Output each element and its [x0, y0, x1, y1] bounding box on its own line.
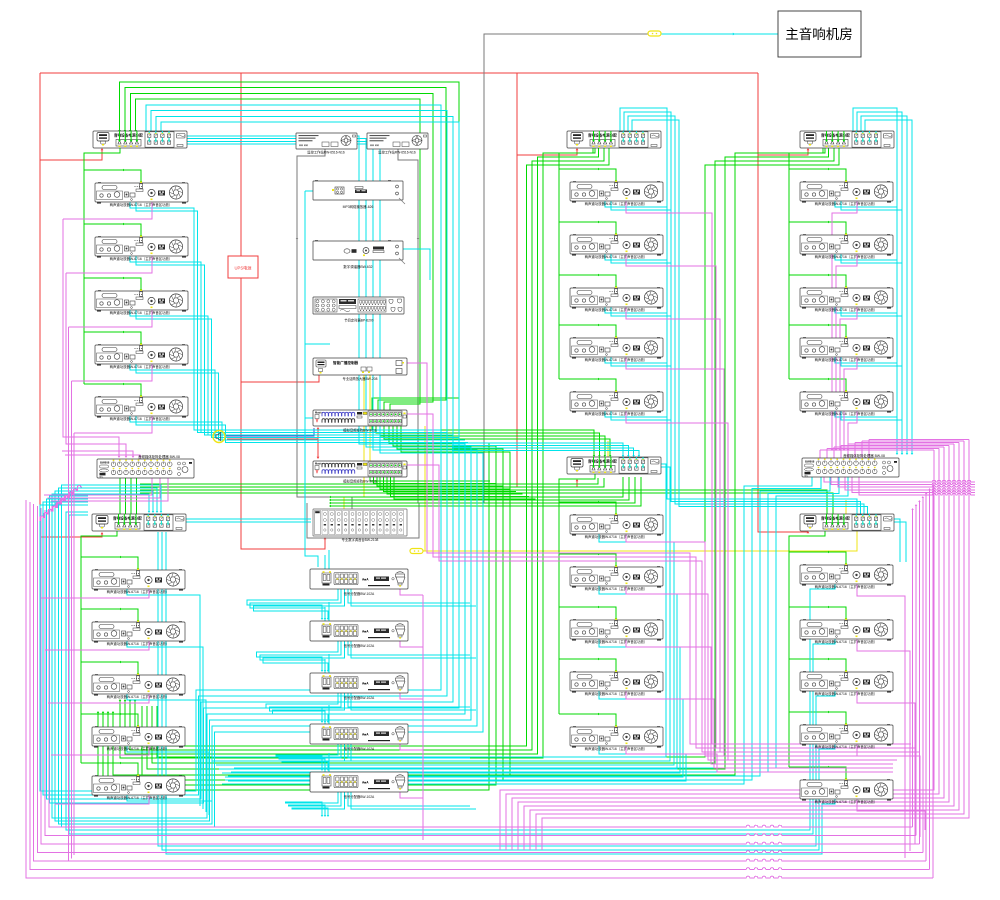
amplifier L1-A5 [95, 395, 188, 421]
svg-text:×× ××: ×× ×× [370, 144, 379, 148]
svg-text:两声道功放器W-6716（主扩声音区功放）: 两声道功放器W-6716（主扩声音区功放） [110, 416, 173, 421]
power distributor R2 [800, 514, 894, 531]
svg-text:×× ××: ×× ×× [299, 144, 308, 148]
amplifier M2-A2 [570, 565, 663, 591]
wire cyan M1 risers [620, 108, 869, 519]
svg-text:两声道功放器W-6716（主扩声音区功放）: 两声道功放器W-6716（主扩声音区功放） [107, 694, 170, 699]
svg-text:两声道功放器W-6716（主扩声音区功放）: 两声道功放器W-6716（主扩声音区功放） [815, 411, 878, 416]
svg-text:信号分配器BW-102A: 信号分配器BW-102A [344, 643, 375, 648]
svg-text:模拟音频矩阵BW-9016: 模拟音频矩阵BW-9016 [343, 428, 377, 433]
mic control box [313, 358, 407, 381]
svg-text:两声道功放器W-6716（主扩声音区功放）: 两声道功放器W-6716（主扩声音区功放） [585, 411, 648, 416]
svg-text:A■A: A■A [362, 733, 369, 737]
svg-text:信号分配器BW-102A: 信号分配器BW-102A [344, 746, 375, 751]
signal distributor C-4 [310, 724, 408, 751]
amplifier R2-A2 [800, 618, 893, 644]
wire magenta R1 outs [831, 201, 857, 451]
wire green strip1 fan [97, 426, 612, 790]
amplifier M2-A3 [570, 618, 663, 644]
wire cyan M2 amp loops [212, 443, 686, 781]
amplifier M1-A2 [570, 233, 663, 259]
svg-text:两声道功放器W-6716（主扩声音区功放）: 两声道功放器W-6716（主扩声音区功放） [585, 691, 648, 696]
wire magenta bottom ring [26, 484, 934, 878]
node UPS 24V power box [228, 256, 258, 278]
wire cyan M1 amp stubs [605, 201, 671, 420]
wire green R1 risers [142, 148, 839, 775]
svg-text:音响设备电源分配: 音响设备电源分配 [588, 458, 617, 463]
wire gray speaker trunk [296, 34, 648, 538]
svg-text:两声道功放器W-6716（主扩声音区功放）: 两声道功放器W-6716（主扩声音区功放） [815, 307, 878, 312]
signal distributor C-5 [310, 772, 408, 799]
svg-text:UPS电源: UPS电源 [235, 265, 253, 272]
wire cyan L2 pd out [186, 519, 311, 522]
svg-text:两声道功放器W-6716（主扩声音区功放）: 两声道功放器W-6716（主扩声音区功放） [107, 795, 170, 800]
wire magenta M1 outs [626, 201, 897, 760]
svg-text:两声道功放器W-6716（主扩声音区功放）: 两声道功放器W-6716（主扩声音区功放） [110, 202, 173, 207]
svg-text:两声道功放器W-6716（主扩声音区功放）: 两声道功放器W-6716（主扩声音区功放） [815, 201, 878, 206]
amplifier L2-A3 [92, 673, 185, 699]
amplifier M1-A3 [570, 286, 663, 312]
wire cyan bottom bus [66, 512, 835, 854]
amplifier R2-A4 [800, 723, 893, 749]
remote workstation B [367, 133, 428, 155]
wire green chain M2 [559, 474, 617, 727]
wire magenta M2 outs [626, 534, 893, 772]
amplifier R1-A1 [800, 180, 893, 206]
svg-text:信号分配器BW-102A: 信号分配器BW-102A [344, 591, 375, 596]
wire magenta hops left [40, 485, 82, 521]
svg-text:数字调谐器BW-632: 数字调谐器BW-632 [343, 264, 372, 269]
amplifier R1-A3 [800, 286, 893, 312]
svg-text:两声道功放器W-6716（主扩声音区功放）: 两声道功放器W-6716（主扩声音区功放） [585, 746, 648, 751]
svg-text:两声道功放器W-6716（主扩声音区功放）: 两声道功放器W-6716（主扩声音区功放） [815, 357, 878, 362]
amplifier R2-A1 [800, 563, 893, 589]
svg-text:遥控工作站RW-6516-N16: 遥控工作站RW-6516-N16 [378, 150, 416, 155]
amplifier R1-A2 [800, 233, 893, 259]
wire green chain L1 [84, 148, 142, 397]
wire cyan center boxes [247, 550, 476, 817]
svg-text:BW808: BW808 [100, 461, 110, 465]
amplifier M1-A4 [570, 336, 663, 362]
svg-text:两声道功放器W-6716（主扩声音区功放）: 两声道功放器W-6716（主扩声音区功放） [585, 254, 648, 259]
amplifier L2-A4 [92, 725, 185, 751]
svg-text:两声道功放器W-6716（主扩声音区功放）: 两声道功放器W-6716（主扩声音区功放） [107, 746, 170, 751]
svg-text:音响设备电源分配: 音响设备电源分配 [114, 132, 143, 137]
power distributor R1 [800, 131, 894, 148]
svg-text:两声道功放器W-6716（主扩声音区功放）: 两声道功放器W-6716（主扩声音区功放） [815, 254, 878, 259]
amplifier L2-A1 [92, 568, 185, 594]
mixer R2 八路处理器 [802, 453, 899, 478]
amplifier R2-A5 [800, 778, 893, 804]
svg-text:A■A: A■A [362, 682, 369, 686]
svg-text:两声道功放器W-6716（主扩声音区功放）: 两声道功放器W-6716（主扩声音区功放） [585, 307, 648, 312]
amplifier L1-A3 [95, 289, 188, 315]
svg-text:两声道功放器W-6716（主扩声音区功放）: 两声道功放器W-6716（主扩声音区功放） [107, 641, 170, 646]
wire magenta L2 outs [41, 478, 168, 804]
svg-text:MIC: MIC [805, 476, 809, 478]
wire magenta R2 mixer bottom fan [824, 477, 975, 495]
amplifier L2-A2 [92, 620, 185, 646]
wire green L1 risers [118, 82, 459, 410]
svg-text:信号分配器BW-102A: 信号分配器BW-102A [344, 695, 375, 700]
wire red power bus [40, 73, 809, 549]
svg-text:音响设备电源分配: 音响设备电源分配 [113, 515, 142, 520]
digital console [313, 509, 407, 542]
svg-text:两声道功放器W-6716（主扩声音区功放）: 两声道功放器W-6716（主扩声音区功放） [107, 589, 170, 594]
wire cyan center rack feeds [305, 190, 430, 567]
svg-text:专业数字调音台BW-2108: 专业数字调音台BW-2108 [342, 537, 379, 542]
amplifier M2-A1 [570, 513, 663, 539]
power distributor L1 [93, 131, 187, 148]
svg-text:信号分配器BW-102A: 信号分配器BW-102A [344, 794, 375, 799]
wire title cyan [661, 33, 778, 36]
wire blue/red speaker pair [225, 427, 319, 459]
wire cyan R1 loops [835, 108, 913, 455]
svg-text:智能广播控制器: 智能广播控制器 [332, 360, 359, 365]
svg-text:音频媒体矩阵处理器 BW-08: 音频媒体矩阵处理器 BW-08 [843, 453, 885, 458]
wire green M2 to center [329, 477, 641, 507]
amplifier R2-A3 [800, 670, 893, 696]
svg-text:两声道功放器W-6716（主扩声音区功放）: 两声道功放器W-6716（主扩声音区功放） [585, 639, 648, 644]
svg-text:A■A: A■A [362, 630, 369, 634]
power distributor M1 [567, 131, 661, 148]
wire green chain R2 [789, 531, 847, 780]
digital tuner box [313, 240, 405, 269]
wire magenta center box outs [400, 587, 423, 840]
signal distributor C-1 [310, 569, 408, 596]
svg-text:两声道功放器W-6716（主扩声音区功放）: 两声道功放器W-6716（主扩声音区功放） [585, 201, 648, 206]
svg-text:遥控工作站RW-6516-N16: 遥控工作站RW-6516-N16 [307, 150, 345, 155]
amplifier L1-A2 [95, 235, 188, 261]
wire green chain L2 [81, 531, 139, 776]
svg-text:两声道功放器W-6716（主扩声音区功放）: 两声道功放器W-6716（主扩声音区功放） [110, 364, 173, 369]
svg-text:主音响机房: 主音响机房 [785, 26, 853, 42]
wire green chain R1 [789, 148, 847, 392]
svg-text:MIC: MIC [100, 477, 104, 479]
yellow connector oval center [410, 549, 423, 554]
wire green chain M1 [559, 148, 617, 392]
svg-text:音频媒体矩阵处理器 BW-08: 音频媒体矩阵处理器 BW-08 [138, 454, 180, 459]
svg-text:两声道功放器W-6716（主扩声音区功放）: 两声道功放器W-6716（主扩声音区功放） [815, 799, 878, 804]
wire yellow controls [344, 375, 857, 551]
svg-text:音响设备电源分配: 音响设备电源分配 [588, 132, 617, 137]
node speaker symbol [213, 431, 225, 443]
wire cyan L1 amp loops [130, 202, 468, 443]
svg-text:音响设备电源分配: 音响设备电源分配 [821, 132, 850, 137]
wire cyan R2 mixer fan [222, 477, 848, 784]
remote workstation A [296, 133, 357, 155]
yellow connector oval top [648, 31, 661, 36]
svg-text:MP3网络播放器-626: MP3网络播放器-626 [343, 204, 374, 209]
svg-text:两声道功放器W-6716（主扩声音区功放）: 两声道功放器W-6716（主扩声音区功放） [815, 691, 878, 696]
svg-text:两声道功放器W-6716（主扩声音区功放）: 两声道功放器W-6716（主扩声音区功放） [585, 357, 648, 362]
wire cyan L1 pd loop [52, 136, 483, 827]
wire cyan L1 risers to center [40, 105, 459, 803]
node 主音响机房 title box [778, 11, 861, 57]
svg-text:模拟音频矩阵BW-9016: 模拟音频矩阵BW-9016 [343, 479, 377, 484]
wire magenta R2 outs [857, 584, 925, 858]
amplifier L1-A4 [95, 343, 188, 369]
wire green L2 bus [120, 478, 834, 525]
svg-text:两声道功放器W-6716（主扩声音区功放）: 两声道功放器W-6716（主扩声音区功放） [110, 310, 173, 315]
mixer L2 八路处理器 [97, 454, 194, 479]
svg-text:两声道功放器W-6716（主扩声音区功放）: 两声道功放器W-6716（主扩声音区功放） [815, 639, 878, 644]
amplifier M1-A1 [570, 180, 663, 206]
wire cyan R2 pd out [892, 519, 906, 562]
media player box [313, 180, 405, 209]
wire magenta R2 mixer fan [500, 440, 969, 851]
svg-text:两声道功放器W-6716（主扩声音区功放）: 两声道功放器W-6716（主扩声音区功放） [585, 586, 648, 591]
matrix strip 2 [313, 461, 407, 484]
wire green M1 risers [119, 148, 609, 758]
signal distributor C-3 [310, 673, 408, 700]
svg-text:音响设备电源分配: 音响设备电源分配 [821, 515, 850, 520]
wire cyan L2 amp loops [127, 589, 212, 818]
matrix strip 1 [313, 410, 407, 433]
amplifier M2-A4 [570, 670, 663, 696]
svg-text:专业话筒放大器BW-208: 专业话筒放大器BW-208 [343, 376, 378, 381]
svg-text:两声道功放器W-6716（主扩声音区功放）: 两声道功放器W-6716（主扩声音区功放） [815, 744, 878, 749]
amplifier L2-A5 [92, 774, 185, 800]
svg-text:两声道功放器W-6716（主扩声音区功放）: 两声道功放器W-6716（主扩声音区功放） [815, 584, 878, 589]
svg-text:A■A: A■A [362, 781, 369, 785]
wire green strip2 fan [370, 477, 536, 499]
amplifier R1-A4 [800, 336, 893, 362]
svg-text:BW808: BW808 [805, 460, 815, 464]
svg-text:两声道功放器W-6716（主扩声音区功放）: 两声道功放器W-6716（主扩声音区功放） [110, 256, 173, 261]
wire magenta center strip outs [402, 363, 919, 752]
svg-text:节目定时器BP-6200: 节目定时器BP-6200 [344, 318, 373, 323]
power distributor M2 [567, 457, 661, 474]
program timer box [313, 297, 404, 323]
signal distributor C-2 [310, 621, 408, 648]
amplifier M1-A5 [570, 390, 663, 416]
power distributor L2 [92, 514, 186, 531]
amplifier R1-A5 [800, 390, 893, 416]
wire magenta L1 bundle [62, 202, 152, 862]
svg-text:A■A: A■A [362, 578, 369, 582]
svg-text:两声道功放器W-6716（主扩声音区功放）: 两声道功放器W-6716（主扩声音区功放） [585, 534, 648, 539]
amplifier M2-A5 [570, 725, 663, 751]
amplifier L1-A1 [95, 181, 188, 207]
